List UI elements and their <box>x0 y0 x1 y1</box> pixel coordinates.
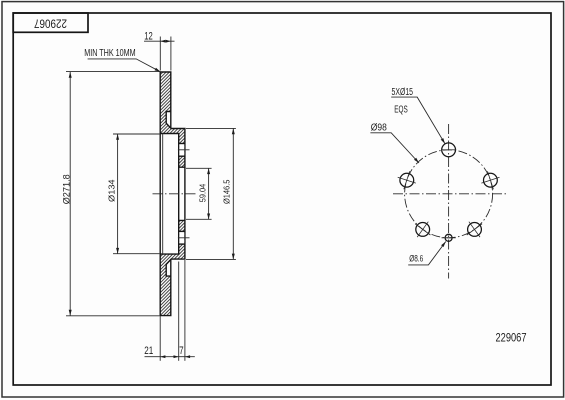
title box (top-left) <box>13 13 88 32</box>
dimension D146.5: dimension line <box>232 128 234 259</box>
svg-text:Ø8.6: Ø8.6 <box>409 253 423 263</box>
dimension D146.5: extension lines <box>186 127 236 129</box>
leader 5XD15 <box>391 97 445 144</box>
svg-text:7: 7 <box>179 345 184 357</box>
svg-text:Ø271.8: Ø271.8 <box>62 174 73 204</box>
svg-text:229067: 229067 <box>34 16 67 30</box>
ring outer-edge line across upper notch <box>170 112 172 129</box>
bolt hole (lower, section) <box>179 231 184 244</box>
horizontal centerline <box>393 193 506 195</box>
ring outer-edge line across lower notch <box>170 259 172 276</box>
svg-text:MIN THK 10MM: MIN THK 10MM <box>84 48 136 59</box>
dimension 12: extension lines <box>159 37 161 71</box>
leader D8.6 <box>408 242 446 265</box>
svg-text:Ø134: Ø134 <box>106 179 116 202</box>
leader D98 <box>370 133 419 163</box>
bolt hole (upper, section) <box>179 144 184 157</box>
bottom dimensions 21 / 7: extension lines <box>159 316 161 361</box>
dimension D134: dimension line <box>117 134 119 254</box>
svg-text:5XØ15: 5XØ15 <box>392 87 414 98</box>
hat face visible edges (between halves) <box>159 134 161 255</box>
bolt hole lower-right <box>468 223 482 237</box>
bolt hole top <box>442 143 456 157</box>
svg-text:Ø98: Ø98 <box>371 123 387 134</box>
dimension line 21 / 7 <box>145 356 195 358</box>
svg-text:EQS: EQS <box>394 105 408 116</box>
locating hole D8.6 (bottom) <box>445 234 452 241</box>
bolt hole centerline tick (upper) <box>178 149 190 151</box>
bolt hole upper-right <box>484 173 498 187</box>
dimension D134: extension lines <box>113 133 159 135</box>
bolt hole centerline tick (lower) <box>178 237 190 239</box>
svg-text:229067: 229067 <box>496 330 527 344</box>
centre bore edges <box>178 167 180 220</box>
bolt circle D98 (dash-dot) <box>405 150 493 238</box>
svg-text:Ø146.5: Ø146.5 <box>221 179 231 204</box>
bolt hole lower-left <box>416 223 430 237</box>
disc section: lower half (hatched) <box>160 220 185 315</box>
leader MIN THK <box>88 59 161 72</box>
bolt hole upper-left <box>400 173 414 187</box>
svg-text:21: 21 <box>144 345 153 357</box>
svg-text:59.04: 59.04 <box>198 183 208 202</box>
section axis centerline <box>153 193 197 195</box>
dimension D271.8: extension lines <box>66 71 159 73</box>
dimension 12: dimension line <box>144 40 175 42</box>
dimension 59.04: extension lines <box>186 167 212 169</box>
vertical centerline <box>448 124 450 279</box>
svg-text:12: 12 <box>144 31 153 43</box>
dimension 59.04: dimension line <box>208 168 210 219</box>
disc section: upper half (hatched) <box>160 72 185 167</box>
dimension D271.8: dimension line <box>69 72 71 316</box>
